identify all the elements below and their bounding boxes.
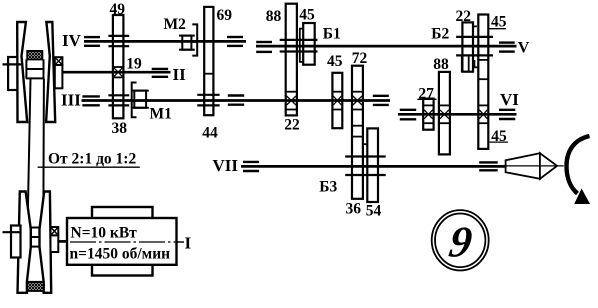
underline of belt ratio label — [38, 166, 140, 168]
svg-text:49: 49 — [110, 1, 126, 18]
gear 45 X-joint (intermediate shaft) — [332, 92, 342, 110]
tool tip — [540, 153, 557, 179]
svg-text:44: 44 — [202, 125, 218, 142]
division between gears 69 and 44 — [204, 73, 213, 75]
svg-text:V: V — [518, 39, 530, 56]
svg-text:III: III — [61, 90, 81, 109]
pulley P1 right cone disc — [46, 22, 55, 122]
shaft V — [256, 45, 517, 48]
motor axis dash-dot inside housing — [70, 241, 184, 243]
wire: stub axle left of P2 — [3, 231, 21, 233]
bearing right of shaft VII — [479, 162, 498, 170]
wire: stub axle left of P1 — [3, 63, 22, 65]
tool holder cone on shaft VII — [506, 153, 540, 179]
bearing right of shaft V — [499, 43, 515, 52]
svg-text:22: 22 — [284, 117, 300, 134]
gear block 45/45 (right tall bar) — [478, 15, 488, 149]
hub of P1 — [26, 69, 44, 78]
gear 22 of block Б2 — [462, 22, 473, 71]
motor housing wide band — [67, 218, 177, 265]
svg-text:Б2: Б2 — [431, 26, 449, 43]
wire: belt right run — [43, 59, 45, 78]
gear block 49/19/38 on shafts IV,II,III — [113, 15, 124, 118]
gear 88 X-joint on shaft VI — [439, 105, 450, 123]
pulley P2 left cone disc (lower variator sheave) — [18, 192, 31, 293]
pulley P2 right cone disc — [40, 192, 52, 293]
svg-text:45: 45 — [491, 13, 507, 30]
svg-text:М2: М2 — [164, 16, 187, 33]
wire: thin axis through tool — [498, 165, 564, 167]
svg-text:n=1450 об/мин: n=1450 об/мин — [70, 245, 171, 262]
bearing left of shaft VII — [243, 162, 259, 171]
svg-text:45: 45 — [327, 53, 343, 70]
gear 27 X-joint on shaft VI — [423, 105, 433, 123]
svg-text:VII: VII — [213, 156, 239, 175]
circled number 9 outer ring — [432, 210, 489, 270]
circled number 9 inner ring — [435, 214, 485, 268]
gear 88 on shaft VI — [439, 72, 450, 154]
bearing left of shaft V — [256, 42, 272, 52]
svg-text:Б1: Б1 — [323, 25, 341, 42]
shaft II — [62, 71, 171, 74]
svg-text:I: I — [185, 234, 192, 253]
shaft I stub (motor shaft) — [58, 240, 67, 243]
shaft VI — [398, 113, 517, 116]
shaft VII — [241, 165, 506, 168]
svg-text:88: 88 — [433, 56, 449, 73]
divisions of right 45/45 bar — [478, 60, 488, 79]
svg-text:IV: IV — [62, 31, 82, 50]
gear block 69/44 — [204, 7, 213, 115]
gear 45 X-joint on shaft VI (tall right bar) — [478, 105, 488, 123]
svg-text:II: II — [173, 65, 187, 84]
bearing middle of shaft III — [228, 96, 244, 105]
svg-text:VI: VI — [500, 90, 519, 109]
gear 44 hub ticks on shaft III — [197, 95, 219, 106]
belt cross-section on P1 — [27, 51, 42, 60]
Б2 hub ticks on shaft V — [456, 37, 493, 56]
Б3 hub ticks on shaft VII — [345, 157, 386, 176]
svg-text:22: 22 — [456, 8, 472, 25]
bearing right of shaft VI — [499, 110, 515, 119]
svg-text:Б3: Б3 — [319, 178, 337, 195]
gear 54 of block Б3 — [367, 128, 378, 202]
coupling box with X right of P2 — [51, 227, 59, 252]
wire: belt left run — [25, 59, 27, 78]
bearing left of shaft IV — [84, 37, 100, 46]
gear 72 X-joint (intermediate shaft) — [352, 92, 363, 110]
shaft III (long intermediate shaft) — [82, 99, 391, 102]
gear 38 hub ticks on shaft III — [108, 95, 129, 105]
gear 27 on shaft VI — [423, 99, 433, 130]
gear block 72/36 — [352, 66, 363, 199]
svg-text:69: 69 — [217, 7, 233, 24]
wire: shaft IV through М2 sleeve — [180, 40, 196, 43]
rotation arrow head — [574, 189, 590, 205]
clutch М2 jaw on gear 69 hub — [192, 24, 197, 55]
Б3 connector bracket between 36 and 54 — [363, 143, 367, 145]
belt cross-section on P2 — [27, 282, 44, 291]
bearing support box left of P1 — [8, 57, 17, 90]
clutch М1 sliding sleeve on shaft III — [132, 91, 149, 108]
svg-text:N=10 кВт: N=10 кВт — [71, 225, 138, 242]
gear 45 of block Б1 — [303, 23, 315, 65]
axis line of shaft I (dash-dot) — [68, 241, 185, 243]
bearing right of shaft III — [373, 96, 389, 105]
gear 49 hub ticks on shaft IV — [108, 36, 129, 46]
clutch М1 jaw on gear 38 hub — [132, 83, 137, 118]
Б1 connector bracket between 88 and 45 — [300, 28, 304, 63]
divisions of block 72/36 — [352, 126, 363, 137]
svg-text:88: 88 — [266, 8, 282, 25]
clutch М2 sliding sleeve on shaft IV — [179, 36, 195, 50]
gear block 88/22 (left middle) — [286, 4, 297, 116]
svg-text:36: 36 — [346, 200, 362, 217]
bearing left of shaft VI — [400, 110, 416, 120]
svg-text:72: 72 — [352, 50, 368, 67]
svg-text:М1: М1 — [150, 106, 172, 123]
gear 19 X-joint on shaft II — [113, 67, 124, 77]
shaft IV — [84, 40, 246, 43]
bearing right of shaft IV — [227, 37, 243, 46]
jaw clutch seat on gear 88 (right) — [462, 55, 469, 71]
hub of P2 — [31, 228, 40, 247]
svg-text:38: 38 — [112, 120, 128, 137]
bearing support box left of P2 — [11, 226, 21, 258]
coupling box with X right of P1 — [55, 57, 63, 88]
pulley P1 left cone disc (upper variator sheave) — [17, 22, 27, 122]
motor housing centre section — [92, 207, 153, 276]
wire: shaft III through М1 sleeve — [132, 99, 149, 102]
Б2 connector bracket between 22 and 45 — [473, 26, 478, 67]
gear 22 X-joint (left middle bar) — [286, 92, 297, 110]
rotation arrow arc — [567, 136, 590, 194]
Б1 hub ticks on shaft V — [280, 40, 318, 52]
bearing left of shaft III — [82, 96, 99, 105]
svg-text:19: 19 — [126, 55, 142, 72]
svg-text:45: 45 — [299, 7, 315, 24]
svg-text:54: 54 — [366, 203, 382, 220]
svg-text:От 2:1 до 1:2: От 2:1 до 1:2 — [48, 151, 136, 168]
gear 45 on intermediate shaft — [332, 73, 342, 128]
bearing right of shaft II — [152, 69, 168, 77]
